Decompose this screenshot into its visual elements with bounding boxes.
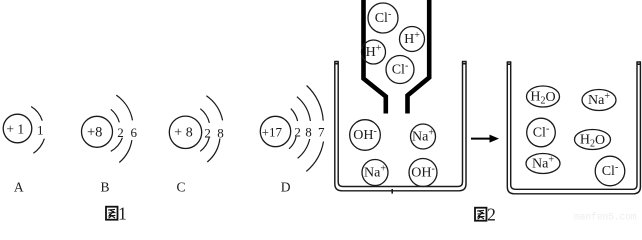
svg-text:D: D: [281, 180, 291, 195]
svg-text:2: 2: [204, 125, 211, 140]
svg-text:6: 6: [131, 125, 138, 140]
svg-text:7: 7: [318, 125, 325, 140]
svg-text:+8: +8: [87, 124, 102, 140]
svg-text:OH-: OH-: [353, 126, 377, 144]
svg-text:C: C: [176, 180, 185, 195]
svg-text:OH-: OH-: [411, 163, 435, 181]
svg-text:+ 8: + 8: [174, 125, 192, 140]
svg-text:manfen5.com: manfen5.com: [574, 212, 637, 223]
svg-text:8: 8: [305, 125, 312, 140]
svg-text:2: 2: [487, 205, 496, 222]
svg-text:+ 1: + 1: [6, 122, 24, 137]
svg-text:1: 1: [37, 123, 44, 138]
svg-text:+17: +17: [262, 125, 283, 140]
svg-text:A: A: [14, 180, 24, 195]
svg-text:2: 2: [117, 125, 124, 140]
svg-text:1: 1: [118, 204, 127, 222]
svg-text:B: B: [100, 180, 109, 195]
svg-text:2: 2: [294, 125, 301, 140]
svg-text:8: 8: [217, 125, 224, 140]
